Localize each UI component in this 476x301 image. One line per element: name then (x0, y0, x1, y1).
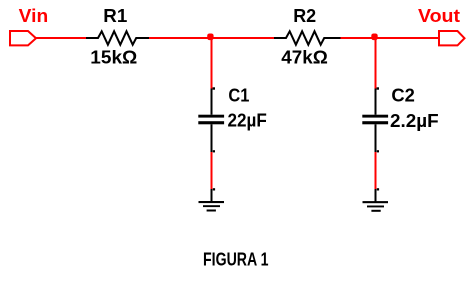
svg-text:R2: R2 (293, 6, 316, 26)
svg-text:FIGURA 1: FIGURA 1 (203, 250, 269, 270)
svg-text:Vin: Vin (19, 6, 48, 26)
svg-text:15kΩ: 15kΩ (90, 47, 137, 67)
svg-text:R1: R1 (103, 6, 127, 26)
svg-text:Vout: Vout (418, 6, 460, 26)
svg-text:22µF: 22µF (228, 110, 267, 130)
svg-text:47kΩ: 47kΩ (281, 47, 328, 67)
svg-text:2.2µF: 2.2µF (390, 111, 439, 131)
svg-text:C1: C1 (228, 85, 249, 105)
svg-text:C2: C2 (391, 85, 415, 105)
